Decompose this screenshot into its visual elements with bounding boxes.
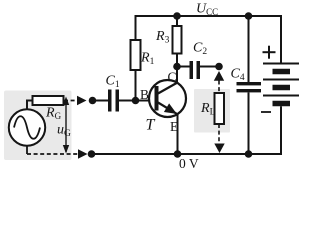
signal source shaded box (4, 91, 72, 161)
resistor R1 (131, 40, 141, 70)
label RG (45, 106, 62, 122)
battery cell 2 short plate (273, 85, 291, 91)
svg-text:E: E (170, 119, 178, 134)
arrow up toward output node (214, 71, 224, 81)
wire: C1 to base (119, 100, 155, 102)
sine source circle (9, 109, 45, 145)
wire: C2 to output node (200, 66, 219, 68)
input arrow top (77, 96, 87, 105)
resistor RG (33, 96, 64, 105)
label UCC (196, 2, 218, 18)
transistor emitter stroke (158, 103, 178, 115)
load shaded box (194, 89, 230, 133)
transistor T circle (149, 80, 186, 117)
label 0 V (179, 156, 199, 171)
label C2 (193, 41, 207, 58)
voltage arrow uG up head (63, 97, 69, 106)
node: collector junction (173, 63, 181, 71)
transistor base bar (155, 86, 159, 111)
svg-text:T: T (146, 117, 156, 134)
dashed wire: source bottom to input arrow (27, 153, 78, 155)
wire: source bottom drop (26, 145, 28, 154)
arrow down toward ground rail (214, 144, 224, 154)
wire: rail to battery plus (280, 15, 282, 64)
label B (base) (140, 87, 149, 102)
label C1 (106, 74, 120, 91)
wire: input dot to C1 (93, 100, 109, 102)
node: rail-C4 junction (245, 12, 253, 20)
label R3 (155, 29, 170, 46)
input arrow bottom (78, 149, 88, 158)
wire: R1 to base node (135, 70, 137, 101)
capacitor C1 (108, 90, 119, 112)
label uG (57, 123, 71, 140)
node: C4-ground rail junction (245, 150, 253, 158)
wire: source top to RG (27, 101, 33, 111)
label T (transistor) (146, 117, 156, 134)
wire: collector vertical (176, 67, 178, 84)
sine wave (14, 116, 40, 139)
wire: rail down to R3 (176, 16, 178, 27)
node: input dot top (89, 97, 97, 105)
battery cell 2 long plate (263, 79, 299, 81)
node: rail-R3 junction (173, 12, 181, 20)
transistor emitter arrowhead (164, 103, 177, 114)
wire: ground rail 0V (92, 153, 283, 155)
wire: battery minus to ground rail (280, 106, 282, 155)
dashed lead from RL (218, 124, 220, 144)
dashed lead to RL (218, 81, 220, 94)
node: emitter-rail junction (174, 150, 182, 158)
svg-text:C: C (168, 70, 177, 85)
battery cell 1 short plate (273, 69, 291, 75)
wire: emitter vertical (177, 114, 179, 154)
svg-text:B: B (140, 87, 149, 102)
wire: R3 to collector node (176, 54, 178, 68)
battery cell 3 short plate (273, 101, 291, 107)
transistor collector stroke (158, 83, 178, 94)
voltage arrow uG stem (65, 102, 67, 152)
battery cell 1 long plate (263, 63, 299, 65)
resistor R3 (173, 26, 182, 54)
wire: collector node to C2 (177, 66, 190, 68)
battery plus sign (263, 46, 276, 59)
dashed wire: RG to input arrow (64, 100, 78, 102)
node: base junction (132, 97, 140, 105)
wire: top supply rail (135, 15, 283, 17)
capacitor C4 (237, 82, 262, 92)
voltage arrow uG down head (63, 145, 69, 154)
label C4 (231, 67, 245, 84)
node: output junction (215, 63, 223, 71)
label RL (200, 101, 216, 118)
wire: C4 to ground rail (248, 93, 250, 155)
capacitor C2 (190, 61, 201, 79)
battery minus sign (261, 111, 271, 113)
label C (collector) (168, 70, 177, 85)
svg-text:0 V: 0 V (179, 156, 199, 171)
label R1 (140, 51, 155, 68)
node: input dot bottom (88, 150, 96, 158)
battery cell 3 long plate (263, 95, 299, 97)
label E (emitter) (170, 119, 178, 134)
wire: rail down to C4 (248, 16, 250, 83)
resistor RL (215, 93, 225, 124)
wire: rail down to R1 (135, 15, 137, 41)
